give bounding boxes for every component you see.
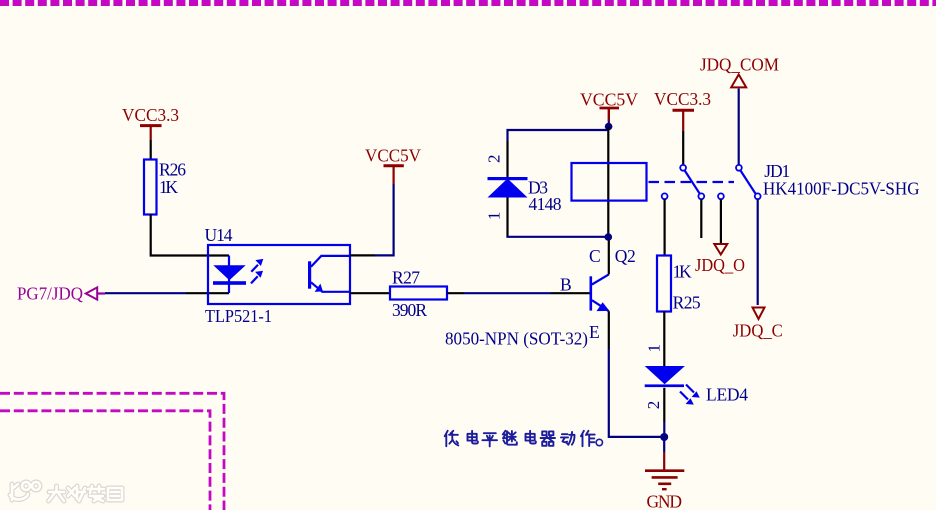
watermark logo shadow (10, 482, 122, 501)
watermark logo white face (10, 482, 122, 501)
wire PG7/JDQ to U14 pin2 (black) (186, 292, 229, 294)
wire R25 to LED pin1 (663, 312, 665, 368)
optocoupler U14 internal LED (213, 256, 246, 294)
wire JDQ_COM to relay contact (738, 89, 740, 165)
wire contact to R25 (663, 199, 665, 255)
node: VCC5V-relay junction (605, 123, 613, 131)
node: collector-diode junction (605, 233, 613, 241)
optocoupler U14 box (208, 245, 350, 304)
resistor R27 (390, 267, 447, 320)
wire Q2 emitter down (black) (608, 311, 610, 349)
glyph dian (electric) (526, 431, 536, 444)
svg-text:E: E (589, 322, 600, 342)
svg-text:JDQ_COM: JDQ_COM (700, 55, 779, 75)
wire U14 pin4 (black) (350, 254, 375, 256)
svg-text:VCC3.3: VCC3.3 (654, 89, 711, 109)
svg-text:R25: R25 (673, 293, 701, 313)
svg-text:2: 2 (644, 401, 663, 410)
transistor Q2 (590, 274, 610, 311)
resistor R26 (144, 159, 186, 214)
wire VCC5V down to U14 pin4 (navy) (375, 184, 394, 255)
svg-text:HK4100F-DC5V-SHG: HK4100F-DC5V-SHG (763, 179, 920, 199)
wire contact to JDQ_O (720, 199, 722, 243)
bottom-left inner dashed border (0, 411, 210, 510)
wire contact to JDQ_C (757, 199, 759, 305)
wire R27 to Q2 base (navy) (464, 292, 551, 294)
power flag VCC3.3 (right) (654, 89, 711, 131)
svg-text:JDQ_O: JDQ_O (695, 255, 745, 275)
ground GND (645, 437, 684, 510)
svg-text:1: 1 (485, 212, 504, 221)
svg-text:PG7/JDQ: PG7/JDQ (17, 284, 83, 304)
relay contact pole 2 bottom (755, 193, 761, 199)
wire LED pin2 to GND node (navy) (663, 422, 665, 437)
wire VCC3.3 to R26 (150, 140, 152, 160)
node: GND junction (660, 433, 668, 441)
wire LED pin2 down (black) (663, 388, 665, 422)
wire Q2 collector up to junction (608, 237, 610, 274)
svg-text:390R: 390R (392, 300, 427, 320)
relay coil JD1 (572, 163, 647, 201)
svg-text:1K: 1K (159, 177, 178, 197)
svg-text:4148: 4148 (529, 194, 562, 214)
diode D3 (488, 177, 528, 198)
svg-text:VCC5V: VCC5V (580, 89, 638, 109)
svg-text:GND: GND (647, 491, 683, 510)
power flag VCC5V (left) (365, 145, 421, 184)
wire VCC5V stub to junction (608, 121, 610, 127)
svg-text:TLP521-1: TLP521-1 (205, 306, 272, 326)
optocoupler U14 phototransistor (308, 256, 350, 292)
svg-text:8050-NPN (SOT-32): 8050-NPN (SOT-32) (445, 328, 588, 348)
relay contact pole 1 top (680, 165, 686, 171)
bottom-left outer dashed border (0, 393, 224, 510)
relay contact pole 2 top (736, 165, 742, 171)
glyph full stop (596, 439, 602, 445)
port PG7/JDQ (17, 284, 105, 304)
relay armature pole 1 (685, 171, 700, 194)
svg-text:VCC5V: VCC5V (365, 145, 421, 165)
svg-text:Q2: Q2 (615, 246, 636, 266)
svg-text:LED4: LED4 (706, 384, 748, 404)
wire junction through relay coil to lower junction (607, 127, 609, 238)
port JDQ_C (733, 308, 783, 341)
wire PG7/JDQ segment (navy) (105, 292, 186, 294)
glyph zuo (make) (581, 431, 595, 446)
svg-text:VCC3.3: VCC3.3 (122, 105, 179, 125)
optocoupler U14 emission arrow 1 (251, 259, 263, 272)
LED LED4 (645, 366, 685, 387)
glyph dian (electric) (468, 431, 478, 444)
power flag VCC3.3 (left) (122, 105, 179, 140)
svg-text:2: 2 (485, 155, 504, 164)
wire R27 right stub (black) (447, 292, 464, 294)
top dashed border (0, 0, 936, 6)
svg-text:1: 1 (645, 344, 664, 353)
relay contact pole 1 bottom (698, 193, 704, 199)
svg-text:U14: U14 (205, 225, 233, 245)
svg-text:B: B (560, 274, 572, 294)
resistor R25 (657, 256, 701, 313)
svg-text:R27: R27 (392, 267, 420, 287)
wire to Q2 base (black) (551, 292, 590, 294)
port JDQ_O (695, 244, 745, 275)
wire armature pole1 stub (700, 199, 702, 238)
glyph ji (relay-continue) (503, 431, 517, 445)
svg-text:1K: 1K (673, 262, 692, 282)
port JDQ_COM (700, 55, 779, 88)
text: low-level relay action (Chinese) 低电平继电器动作。 (445, 431, 603, 447)
glyph ping (level) (482, 433, 497, 446)
relay contact NO (to JDQ_O) (718, 193, 724, 199)
wire U14 pin3 to R27 (350, 292, 390, 294)
power flag VCC5V (right) (580, 89, 638, 121)
LED emission arrow 2 (680, 392, 694, 405)
wire R26 to U14 pin1 (151, 215, 229, 256)
glyph dong (action) (561, 432, 575, 445)
glyph di1 (low) (445, 431, 459, 446)
diode D3 branch bottom wire (506, 198, 508, 237)
relay contact NC (to R25) (662, 193, 668, 199)
svg-text:JDQ_C: JDQ_C (733, 320, 783, 340)
diode D3 branch top wire (508, 130, 609, 141)
optocoupler U14 emission arrow 2 (251, 271, 263, 284)
glyph qi (device) (541, 431, 555, 445)
relay armature pole 2 (741, 171, 756, 194)
relay linkage dashed line (649, 181, 735, 183)
wire Q2 emitter to GND node (navy) (609, 349, 661, 437)
LED emission arrow 1 (686, 385, 700, 398)
wire VCC3.3 to relay contact (682, 131, 684, 165)
svg-text:C: C (589, 246, 601, 266)
